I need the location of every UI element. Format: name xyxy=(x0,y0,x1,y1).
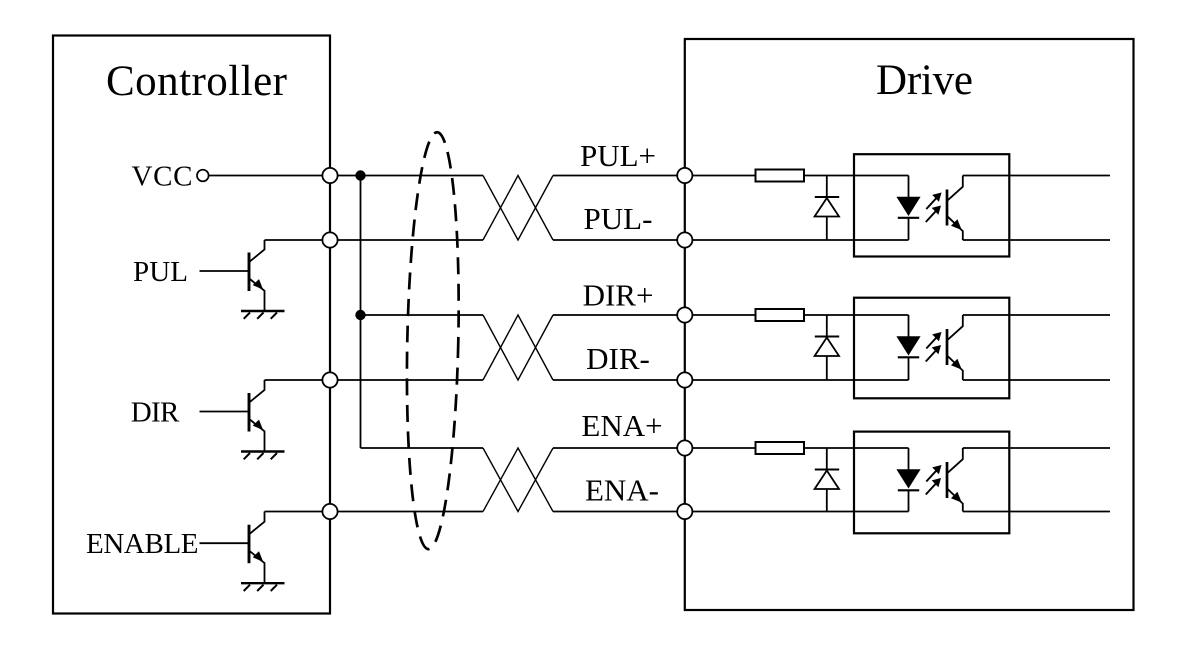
wire ENA+ from rail xyxy=(361,447,484,449)
optocoupler U1 light arrows xyxy=(926,193,942,223)
wire resistor R3 to LED xyxy=(804,447,909,449)
optocoupler U2 LED xyxy=(897,315,919,380)
resistor R1 xyxy=(756,170,805,182)
twisted pair PUL+/PUL- xyxy=(483,176,553,241)
wire collector of Q1 (PUL) to terminal (PUL-) xyxy=(265,239,331,241)
ground of Q1 (PUL) xyxy=(241,311,285,319)
svg-text:ENABLE: ENABLE xyxy=(86,528,199,560)
svg-text:PUL+: PUL+ xyxy=(580,138,656,173)
transistor Q2 (DIR) xyxy=(249,380,265,452)
wire VCC vertical rail xyxy=(360,176,362,449)
controller terminal circle 3 xyxy=(322,372,337,387)
controller box xyxy=(53,36,330,614)
optocoupler U2 phototransistor xyxy=(947,315,963,380)
wire base of Q2 (DIR) xyxy=(200,411,249,413)
wire ENA- to cable xyxy=(330,511,483,513)
wire U1 emitter output xyxy=(963,239,1110,241)
wire U3 emitter output xyxy=(963,511,1110,513)
optocoupler U2 box xyxy=(854,298,1009,399)
svg-text:ENA+: ENA+ xyxy=(581,408,662,443)
diode D1 xyxy=(815,176,840,241)
drive box xyxy=(685,39,1134,610)
svg-text:Controller: Controller xyxy=(106,58,287,105)
wire DIR- cable to LED cathode xyxy=(553,379,909,381)
node junction dot DIR+ rail xyxy=(355,310,365,320)
wire base of Q3 (ENABLE) xyxy=(200,542,249,544)
drive terminal circle 1 xyxy=(677,168,692,183)
transistor Q3 (ENABLE) xyxy=(249,512,265,584)
controller terminal circle 2 xyxy=(322,232,337,247)
twisted pair ENA+/ENA- xyxy=(483,448,553,512)
node junction dot PUL+ rail xyxy=(355,170,365,180)
wire U1 collector output xyxy=(963,175,1110,177)
wire ENA- cable to LED cathode xyxy=(553,511,909,513)
drive terminal circle 2 xyxy=(677,232,692,247)
wire PUL- cable to LED cathode xyxy=(553,239,909,241)
wire DIR+ from rail xyxy=(361,314,484,316)
svg-text:DIR+: DIR+ xyxy=(583,278,654,313)
svg-text:VCC: VCC xyxy=(132,161,193,193)
optocoupler U1 LED xyxy=(897,176,919,241)
svg-text:PUL-: PUL- xyxy=(584,201,653,236)
optocoupler U3 light arrows xyxy=(926,465,942,495)
cable shield (dashed ellipse) xyxy=(403,132,463,550)
resistor R3 xyxy=(756,442,805,454)
wire collector of Q2 (DIR) to terminal (DIR-) xyxy=(265,379,331,381)
wire U2 emitter output xyxy=(963,379,1110,381)
drive terminal circle 3 xyxy=(677,307,692,322)
optocoupler U3 LED xyxy=(897,448,919,512)
twisted pair DIR+/DIR- xyxy=(483,315,553,380)
svg-text:DIR: DIR xyxy=(131,396,180,428)
controller terminal circle 1 xyxy=(322,168,337,183)
wire DIR+ cable to resistor R2 xyxy=(553,314,756,316)
drive terminal circle 4 xyxy=(677,372,692,387)
wire collector of Q3 (ENABLE) to terminal (ENA-) xyxy=(265,511,331,513)
optocoupler U1 box xyxy=(854,154,1009,256)
controller terminal circle 4 xyxy=(322,504,337,519)
wire PUL+ cable to resistor R1 xyxy=(553,175,756,177)
wire DIR- to cable xyxy=(330,379,483,381)
drive terminal circle 6 xyxy=(677,504,692,519)
diode D3 xyxy=(815,448,840,512)
optocoupler U2 light arrows xyxy=(926,332,942,362)
wire VCC to cable (PUL+ rail) xyxy=(209,175,484,177)
transistor Q1 (PUL) xyxy=(249,240,265,311)
VCC pin circle xyxy=(197,170,209,182)
svg-text:Drive: Drive xyxy=(876,57,973,104)
optocoupler U3 phototransistor xyxy=(947,448,963,512)
wire resistor R2 to LED xyxy=(804,314,909,316)
resistor R2 xyxy=(756,309,805,321)
diode D2 xyxy=(815,315,840,380)
ground of Q2 (DIR) xyxy=(241,452,285,460)
optocoupler U1 phototransistor xyxy=(947,176,963,241)
wire base of Q1 (PUL) xyxy=(200,270,249,272)
wire resistor R1 to LED xyxy=(804,175,909,177)
wire ENA+ cable to resistor R3 xyxy=(553,447,756,449)
wire PUL- to cable xyxy=(330,239,483,241)
drive terminal circle 5 xyxy=(677,440,692,455)
wire U3 collector output xyxy=(963,447,1110,449)
wire U2 collector output xyxy=(963,314,1110,316)
svg-text:ENA-: ENA- xyxy=(585,473,659,508)
ground of Q3 (ENABLE) xyxy=(241,583,285,591)
optocoupler U3 box xyxy=(854,432,1009,534)
svg-text:DIR-: DIR- xyxy=(586,341,650,376)
svg-text:PUL: PUL xyxy=(133,256,188,288)
